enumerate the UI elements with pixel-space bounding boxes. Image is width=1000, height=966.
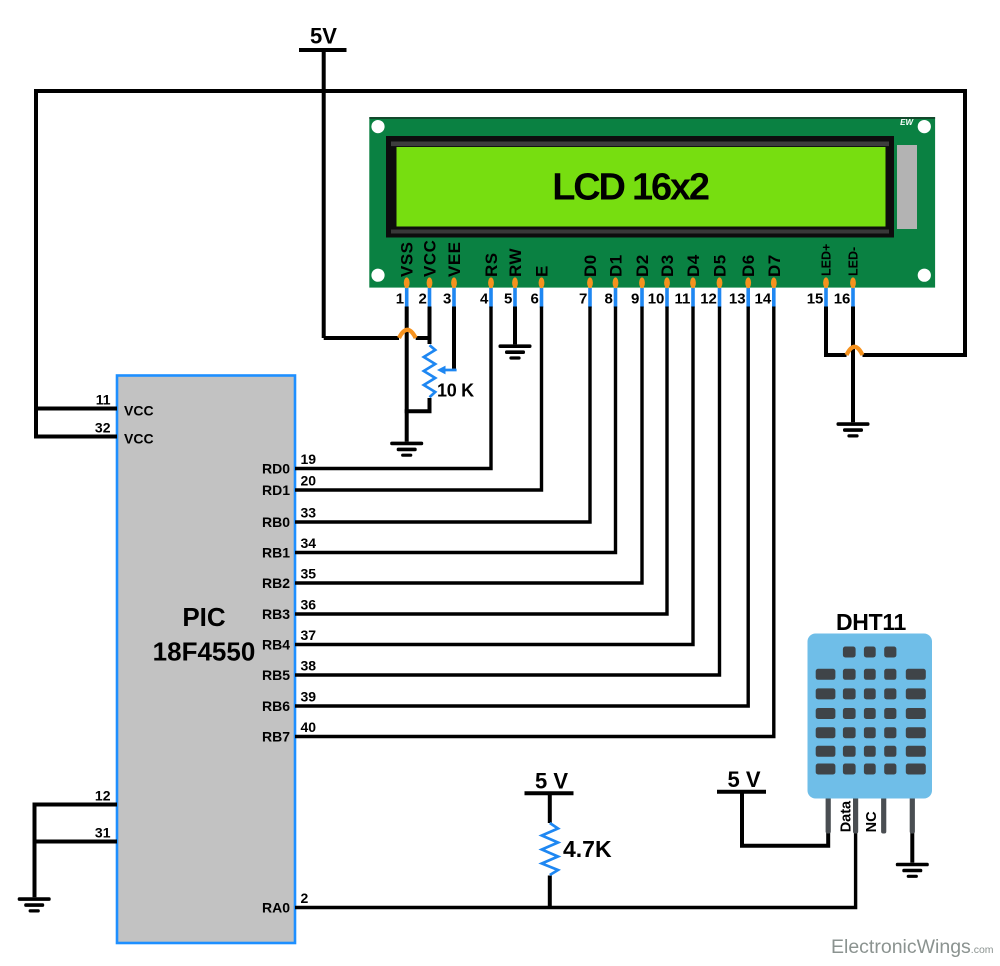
svg-text:13: 13 xyxy=(729,291,746,308)
svg-text:5 V: 5 V xyxy=(535,768,568,793)
svg-text:38: 38 xyxy=(301,658,317,674)
svg-text:15: 15 xyxy=(807,291,824,308)
svg-text:37: 37 xyxy=(301,627,317,643)
svg-text:LCD 16x2: LCD 16x2 xyxy=(552,167,709,209)
svg-text:RS: RS xyxy=(482,252,501,277)
svg-text:5V: 5V xyxy=(310,24,337,49)
svg-text:Data: Data xyxy=(838,800,854,832)
svg-text:D0: D0 xyxy=(581,254,600,277)
svg-text:31: 31 xyxy=(95,824,111,840)
svg-text:4.7K: 4.7K xyxy=(563,836,612,862)
svg-text:D3: D3 xyxy=(658,254,677,277)
svg-text:33: 33 xyxy=(301,505,317,521)
svg-text:2: 2 xyxy=(419,291,427,308)
svg-text:5: 5 xyxy=(504,291,512,308)
svg-text:PIC: PIC xyxy=(182,602,226,632)
svg-text:RB0: RB0 xyxy=(262,514,290,530)
svg-text:D1: D1 xyxy=(607,254,626,277)
svg-text:RW: RW xyxy=(506,248,525,277)
svg-text:19: 19 xyxy=(301,451,317,467)
svg-text:RB6: RB6 xyxy=(262,698,290,714)
svg-text:D5: D5 xyxy=(711,254,730,277)
svg-text:18F4550: 18F4550 xyxy=(153,637,256,667)
svg-text:10: 10 xyxy=(648,291,665,308)
svg-text:36: 36 xyxy=(301,597,317,613)
svg-text:RD1: RD1 xyxy=(262,482,290,498)
svg-text:ElectronicWings.com: ElectronicWings.com xyxy=(831,936,994,958)
svg-text:RD0: RD0 xyxy=(262,461,290,477)
svg-text:VSS: VSS xyxy=(398,241,417,277)
svg-text:VEE: VEE xyxy=(445,241,464,277)
svg-text:LED-: LED- xyxy=(847,247,861,276)
svg-text:VCC: VCC xyxy=(124,431,154,447)
svg-text:EW: EW xyxy=(900,118,914,127)
svg-text:D2: D2 xyxy=(633,254,652,277)
svg-text:4: 4 xyxy=(480,291,489,308)
svg-text:11: 11 xyxy=(675,291,691,308)
svg-text:32: 32 xyxy=(95,419,111,435)
svg-text:10 K: 10 K xyxy=(437,381,474,401)
svg-text:14: 14 xyxy=(755,291,772,308)
svg-text:6: 6 xyxy=(531,291,539,308)
svg-text:RA0: RA0 xyxy=(262,900,290,916)
svg-text:RB3: RB3 xyxy=(262,606,290,622)
svg-text:RB4: RB4 xyxy=(262,637,290,653)
svg-text:12: 12 xyxy=(95,787,111,803)
svg-text:35: 35 xyxy=(301,566,317,582)
svg-text:11: 11 xyxy=(96,391,111,407)
svg-text:VCC: VCC xyxy=(124,403,154,419)
svg-text:LED+: LED+ xyxy=(820,244,834,276)
svg-text:20: 20 xyxy=(301,473,317,489)
svg-text:D6: D6 xyxy=(739,254,758,277)
svg-text:DHT11: DHT11 xyxy=(836,609,907,635)
svg-text:7: 7 xyxy=(579,291,587,308)
svg-text:12: 12 xyxy=(700,291,717,308)
svg-text:RB7: RB7 xyxy=(262,729,290,745)
svg-text:VCC: VCC xyxy=(421,240,440,277)
svg-text:34: 34 xyxy=(301,535,317,551)
svg-text:D4: D4 xyxy=(684,254,703,277)
svg-text:40: 40 xyxy=(301,719,317,735)
svg-text:E: E xyxy=(533,265,552,277)
svg-text:16: 16 xyxy=(834,291,851,308)
svg-text:3: 3 xyxy=(443,291,451,308)
svg-text:1: 1 xyxy=(396,291,404,308)
svg-text:RB5: RB5 xyxy=(262,667,290,683)
svg-text:39: 39 xyxy=(301,689,317,705)
svg-text:5 V: 5 V xyxy=(727,767,760,792)
svg-text:2: 2 xyxy=(301,890,309,906)
svg-text:9: 9 xyxy=(631,291,639,308)
svg-text:RB1: RB1 xyxy=(262,545,290,561)
svg-text:8: 8 xyxy=(605,291,613,308)
svg-text:RB2: RB2 xyxy=(262,575,290,591)
svg-text:NC: NC xyxy=(864,811,880,832)
svg-text:D7: D7 xyxy=(765,254,784,277)
